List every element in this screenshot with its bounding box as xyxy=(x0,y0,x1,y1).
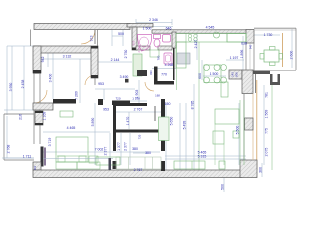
svg-text:1 896: 1 896 xyxy=(240,50,244,59)
svg-text:800: 800 xyxy=(235,72,239,77)
svg-text:1 168: 1 168 xyxy=(132,97,140,101)
svg-text:150: 150 xyxy=(165,102,171,106)
svg-text:5 499: 5 499 xyxy=(183,121,187,130)
svg-text:2 768: 2 768 xyxy=(7,145,11,154)
svg-text:953: 953 xyxy=(98,82,104,86)
svg-text:720: 720 xyxy=(115,97,120,101)
svg-text:380: 380 xyxy=(145,151,151,155)
svg-text:646: 646 xyxy=(166,27,172,31)
svg-text:3 132: 3 132 xyxy=(63,55,72,59)
svg-text:2 377: 2 377 xyxy=(104,147,108,156)
svg-text:300: 300 xyxy=(259,167,263,173)
svg-text:4 465: 4 465 xyxy=(67,126,76,130)
svg-text:1 197: 1 197 xyxy=(230,56,239,60)
svg-text:168: 168 xyxy=(155,94,160,98)
svg-text:1 500: 1 500 xyxy=(210,72,219,76)
svg-text:770: 770 xyxy=(161,73,167,77)
svg-text:5 650: 5 650 xyxy=(170,117,174,126)
svg-text:1 169: 1 169 xyxy=(43,112,47,121)
svg-text:2 346: 2 346 xyxy=(149,18,158,22)
svg-text:8 785: 8 785 xyxy=(191,101,195,110)
svg-text:781: 781 xyxy=(265,92,269,98)
svg-text:5 315: 5 315 xyxy=(198,155,207,159)
svg-text:291: 291 xyxy=(33,165,37,170)
svg-text:775: 775 xyxy=(265,128,269,134)
svg-text:500: 500 xyxy=(118,32,124,36)
svg-text:5 500: 5 500 xyxy=(236,126,240,135)
svg-text:600: 600 xyxy=(198,73,202,79)
svg-text:3 719: 3 719 xyxy=(48,138,52,147)
svg-text:2 750: 2 750 xyxy=(124,50,128,59)
svg-text:720: 720 xyxy=(138,134,142,139)
svg-text:380: 380 xyxy=(132,147,138,151)
svg-text:1 569: 1 569 xyxy=(265,110,269,119)
svg-text:1 711: 1 711 xyxy=(23,155,32,159)
svg-text:820: 820 xyxy=(149,70,153,75)
svg-text:905: 905 xyxy=(132,40,136,45)
svg-text:3 400: 3 400 xyxy=(49,74,53,83)
svg-text:2 144: 2 144 xyxy=(111,58,120,62)
svg-text:780: 780 xyxy=(157,55,161,60)
svg-text:1 730: 1 730 xyxy=(264,33,273,37)
svg-text:2 600: 2 600 xyxy=(290,51,294,60)
svg-text:7 269: 7 269 xyxy=(75,91,79,100)
svg-text:216: 216 xyxy=(19,114,23,120)
svg-text:913: 913 xyxy=(90,36,94,42)
svg-text:2 458: 2 458 xyxy=(21,80,25,89)
svg-text:953: 953 xyxy=(103,108,109,112)
svg-text:2 052: 2 052 xyxy=(137,45,141,52)
svg-text:500: 500 xyxy=(221,184,225,190)
svg-text:2 427: 2 427 xyxy=(194,40,198,49)
svg-text:3 490: 3 490 xyxy=(120,75,129,79)
svg-text:1 377: 1 377 xyxy=(117,142,121,151)
svg-text:4 545: 4 545 xyxy=(206,26,215,30)
svg-text:940: 940 xyxy=(249,44,253,49)
svg-text:3 950: 3 950 xyxy=(9,83,13,92)
svg-text:1 500: 1 500 xyxy=(143,27,152,31)
svg-text:2 075: 2 075 xyxy=(265,148,269,157)
svg-text:2 767: 2 767 xyxy=(134,168,143,172)
svg-text:2 767: 2 767 xyxy=(134,108,143,112)
svg-text:2 377: 2 377 xyxy=(123,142,127,151)
svg-text:942: 942 xyxy=(41,57,45,63)
svg-text:7 002: 7 002 xyxy=(95,148,104,152)
svg-text:1 470: 1 470 xyxy=(126,117,130,126)
svg-text:5 890: 5 890 xyxy=(91,118,95,127)
svg-text:4 268: 4 268 xyxy=(165,63,174,67)
svg-text:638: 638 xyxy=(241,42,247,46)
